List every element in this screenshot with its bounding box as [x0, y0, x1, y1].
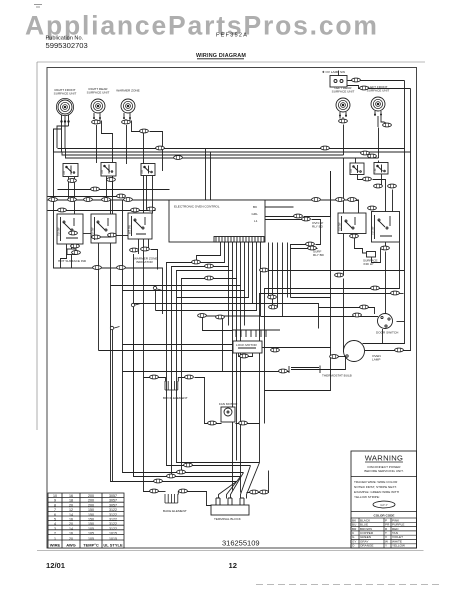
wire lock motor left	[123, 344, 234, 346]
svg-text:BAKE ELEMENT: BAKE ELEMENT	[163, 509, 187, 513]
connector J45	[308, 246, 317, 250]
svg-text:105: 105	[88, 537, 94, 541]
connector J72	[260, 490, 269, 494]
connector J62	[185, 375, 194, 379]
svg-text:IND LP: IND LP	[364, 262, 374, 266]
svg-text:200: 200	[88, 499, 94, 503]
wire latch drop	[239, 354, 253, 357]
svg-text:20: 20	[69, 522, 73, 526]
label surf rly bd	[313, 250, 325, 258]
svg-text:16: 16	[69, 518, 73, 522]
wire x330 long drop	[265, 171, 331, 391]
svg-text:150: 150	[88, 518, 94, 522]
wire broil relay down	[385, 252, 387, 315]
wire eoc drop 2	[172, 243, 229, 477]
wire mid bus row 4	[48, 210, 156, 212]
lf unit terminal dots	[374, 114, 382, 116]
wire lf switch out 2	[373, 180, 386, 213]
connector J60	[279, 369, 288, 373]
connector J54	[371, 286, 380, 290]
wire right vertical r3	[287, 243, 289, 298]
terminal block TB1	[211, 498, 249, 515]
warning box	[351, 451, 417, 548]
svg-text:2: 2	[54, 532, 56, 536]
oven lamp switch box S6	[330, 76, 347, 88]
surface switch right front S1	[63, 164, 78, 177]
wire bake left lead	[159, 491, 166, 493]
svg-text:150: 150	[88, 522, 94, 526]
wire mid bus row 2	[48, 196, 126, 198]
oven lamp DS3	[344, 341, 365, 362]
label broil element	[163, 396, 188, 400]
wire junction drop a	[155, 289, 157, 311]
bake element R2	[165, 494, 178, 503]
svg-text:LIM: LIM	[374, 169, 377, 173]
lf unit stubs	[375, 111, 389, 127]
left front switch S5	[374, 163, 388, 175]
wire top bus 4	[66, 149, 379, 159]
connector J63	[208, 421, 217, 425]
wire k1 to k2 link	[84, 233, 92, 235]
label thermostat bulb	[322, 374, 352, 378]
wire rly link 2	[312, 220, 321, 245]
wire lf box drop	[392, 190, 394, 213]
svg-text:DOOR SWITCH: DOOR SWITCH	[376, 331, 398, 335]
wire surf rly feed	[273, 243, 278, 308]
wire long drop to bake	[144, 132, 151, 492]
svg-text:BROIL ELEMENT: BROIL ELEMENT	[163, 396, 188, 400]
wire bottom of switches bus	[54, 130, 163, 315]
connector J52	[388, 184, 397, 188]
wire eoc right bk	[259, 206, 294, 208]
wire door switch right stub	[397, 321, 405, 323]
svg-text:200: 200	[88, 494, 94, 498]
connector J42	[294, 214, 303, 218]
wire mid bus row	[48, 200, 359, 214]
svg-text:RLY BD: RLY BD	[313, 253, 325, 257]
svg-text:LIM: LIM	[101, 170, 104, 174]
svg-text:16: 16	[69, 494, 73, 498]
connector J64	[239, 421, 248, 425]
wire k1 bottom leads	[71, 245, 73, 268]
svg-text:COLOR CODE: COLOR CODE	[374, 514, 395, 518]
connector J21	[131, 208, 140, 212]
hot surface indicator lamp DS1	[67, 249, 76, 255]
svg-text:14: 14	[69, 513, 73, 517]
wire x122 long drop	[123, 201, 244, 473]
wire top bus L1	[58, 148, 405, 150]
wire x98 drop	[98, 269, 100, 351]
wire eoc drop 6	[123, 243, 245, 291]
wire box a drop lower	[343, 279, 346, 352]
wire bake relay out	[355, 234, 368, 253]
wire rly drop 2	[291, 248, 318, 250]
wire eoc drop 5	[111, 243, 241, 286]
connector J53	[335, 273, 344, 277]
svg-text:✚ OV LAMP SW: ✚ OV LAMP SW	[322, 70, 345, 74]
wire warmer switch drop 2	[152, 176, 154, 214]
svg-text:3122: 3122	[109, 527, 117, 531]
connector J47	[348, 198, 357, 202]
wire rly drop	[291, 245, 309, 298]
connector J6	[352, 78, 361, 82]
svg-text:GRL: GRL	[252, 212, 259, 216]
label left rear surface unit	[332, 86, 355, 94]
wire right vertical r1	[277, 243, 279, 308]
EOC pin labels BK GRL L1	[252, 205, 259, 223]
connector J61	[150, 375, 159, 379]
wire lr unit drop	[343, 125, 345, 214]
label fan motor	[219, 402, 238, 406]
wire eoc drop 8	[134, 243, 253, 304]
bake relay box K4	[338, 213, 367, 234]
svg-text:6: 6	[54, 513, 56, 517]
wire right rear feed	[96, 125, 98, 163]
surface unit warmer zone U3	[121, 99, 135, 113]
color code table	[351, 518, 417, 548]
svg-text:LIM: LIM	[141, 170, 144, 174]
connector J32	[93, 266, 102, 270]
wire k1 lead 2	[61, 245, 67, 268]
wire bake right lead	[178, 492, 179, 495]
wire slant link a	[156, 289, 163, 291]
svg-text:EXAMPLE: GREEN WIRE WITH: EXAMPLE: GREEN WIRE WITH	[354, 490, 399, 494]
wire eoc drop 1	[167, 243, 251, 466]
svg-text:TRACER WIRE: WIRE COLOR: TRACER WIRE: WIRE COLOR	[354, 480, 398, 484]
connector J55	[391, 291, 400, 295]
svg-text:12: 12	[229, 561, 237, 570]
connector J36	[205, 276, 214, 280]
svg-text:LAMP: LAMP	[372, 358, 380, 362]
label bake element	[163, 509, 187, 513]
infinite switch box right rear K2	[91, 214, 117, 243]
connector J29	[108, 233, 117, 237]
oven lamp switch label	[322, 70, 345, 74]
wire mid band right 1	[291, 297, 331, 299]
connector J17	[117, 194, 126, 198]
connector J48	[350, 234, 359, 238]
EOC terminal strip P1	[214, 237, 264, 243]
connector J39	[269, 305, 278, 309]
svg-text:YELLOW: YELLOW	[392, 544, 405, 548]
label ovn lp rly bd	[312, 221, 324, 229]
svg-text:105: 105	[88, 527, 94, 531]
wire eoc drop 10	[203, 243, 261, 317]
wire lock motor right	[263, 347, 331, 349]
svg-text:12: 12	[69, 508, 73, 512]
wire bundle slant 2	[241, 466, 251, 499]
connector J22	[147, 207, 156, 211]
lr unit terminal dots	[339, 115, 347, 117]
junction node a	[153, 286, 156, 289]
svg-text:BEFORE SERVICING UNIT.: BEFORE SERVICING UNIT.	[364, 469, 403, 473]
connector J66	[177, 470, 186, 474]
svg-text:3122: 3122	[109, 508, 117, 512]
connector J27	[72, 251, 81, 255]
svg-text:3057: 3057	[109, 499, 117, 503]
svg-text:SU SW: SU SW	[371, 226, 375, 235]
wire eoc drop 3	[177, 243, 260, 463]
svg-text:3057: 3057	[109, 503, 117, 507]
svg-text:5995302703: 5995302703	[46, 41, 88, 50]
svg-text:LIM: LIM	[63, 171, 66, 175]
svg-text:YELLOW STRIPE:: YELLOW STRIPE:	[354, 495, 380, 499]
svg-text:150: 150	[88, 513, 94, 517]
wire eoc down v1	[228, 267, 230, 326]
svg-text:3122: 3122	[109, 522, 117, 526]
wire rf switch drop 2	[74, 177, 76, 215]
wire thermostat branch	[222, 318, 224, 372]
wire lr switch feed	[355, 158, 357, 164]
wire k2 to k3 link	[117, 235, 129, 237]
connector J43	[302, 217, 311, 221]
surface unit left rear U4	[336, 98, 350, 112]
label lock motor	[234, 342, 261, 347]
connector J44	[306, 242, 315, 246]
connector J35	[205, 264, 214, 268]
wire right loop feed	[400, 289, 404, 294]
wire eoc down v4	[240, 286, 242, 493]
svg-text:THERMOSTAT BULB: THERMOSTAT BULB	[322, 374, 352, 378]
svg-text:SURFACE UNIT: SURFACE UNIT	[87, 91, 110, 95]
svg-text:WARNING: WARNING	[365, 454, 404, 463]
wire x110 long drop	[111, 200, 237, 482]
connector J12b	[368, 206, 377, 210]
surface unit right front U1	[56, 98, 73, 115]
svg-text:16: 16	[69, 532, 73, 536]
connector J7	[360, 86, 369, 90]
label electronic oven control	[174, 205, 220, 209]
svg-text:GY-Y: GY-Y	[380, 503, 387, 507]
svg-text:1015: 1015	[109, 537, 117, 541]
svg-text:105: 105	[88, 532, 94, 536]
wire lamp left link	[331, 356, 345, 358]
warmer unit stubs	[124, 113, 130, 122]
latch switch assembly S8	[232, 330, 280, 337]
connector J68	[154, 479, 163, 483]
wire broil relay out	[385, 243, 387, 249]
wire slant link b	[134, 304, 141, 306]
label warmer zone	[116, 89, 139, 93]
svg-text:200: 200	[88, 503, 94, 507]
svg-text:FAN MOTOR: FAN MOTOR	[219, 402, 238, 406]
scan artifact bottom dashes	[256, 584, 440, 586]
connector J41	[216, 315, 225, 319]
connector J31	[141, 247, 150, 251]
label right rear surface unit	[87, 87, 110, 95]
svg-text:ORANGE: ORANGE	[360, 544, 373, 548]
label hot surface ind	[58, 259, 87, 263]
wire right loop 1	[265, 243, 400, 424]
wire x131 drop	[134, 254, 241, 477]
svg-text:316255109: 316255109	[222, 539, 260, 548]
wire eoc top feed 1	[205, 149, 207, 201]
wire thermostat right	[344, 357, 346, 371]
connector J59	[240, 354, 249, 358]
svg-text:INDICATOR: INDICATOR	[136, 260, 153, 264]
connector J58	[271, 348, 280, 352]
svg-text:TERMINAL BLOCK: TERMINAL BLOCK	[214, 517, 242, 521]
connector J15	[84, 198, 93, 202]
diagram border	[47, 68, 417, 549]
svg-text:TEMP°C: TEMP°C	[83, 543, 99, 548]
wire lf switch out	[381, 175, 383, 187]
connector J65	[184, 463, 193, 467]
svg-text:FEF352A: FEF352A	[216, 33, 248, 39]
svg-text:20: 20	[69, 503, 73, 507]
fan motor M1	[221, 407, 235, 422]
wire bundle slant 4	[227, 477, 241, 499]
lr unit stubs	[340, 112, 346, 119]
wire eoc right grl	[259, 214, 294, 217]
svg-text:SU SW: SU SW	[57, 227, 61, 236]
connector J38	[268, 295, 277, 299]
infinite switch box right front K1	[57, 214, 84, 244]
wire eoc drop 7	[177, 243, 249, 298]
label surface ind lp	[363, 259, 378, 267]
connector J51	[374, 184, 383, 188]
wire lr switch out	[358, 175, 363, 180]
wire right border drop 2	[365, 89, 411, 351]
connector J28	[92, 235, 101, 239]
oven thermostat S9	[289, 366, 345, 374]
wire eoc right l1	[259, 220, 302, 222]
svg-text:HOT SURFACE IND: HOT SURFACE IND	[58, 259, 87, 263]
rr unit terminal dots	[93, 117, 101, 119]
svg-text:4: 4	[54, 522, 56, 526]
junction node c	[110, 326, 113, 329]
connector J71	[250, 490, 259, 494]
svg-text:18: 18	[69, 499, 73, 503]
warmer unit terminal dots	[123, 117, 131, 119]
svg-text:7: 7	[54, 508, 56, 512]
wire warmer bus link	[150, 132, 163, 172]
junction node b	[131, 303, 134, 306]
wire bundle slant 3	[231, 473, 244, 499]
svg-text:NOTED FIRST, STRIPE NEXT.: NOTED FIRST, STRIPE NEXT.	[354, 485, 397, 489]
wire warmer right lead	[132, 121, 140, 132]
label door switch	[376, 331, 398, 335]
svg-text:3057: 3057	[109, 494, 117, 498]
connector J56	[353, 313, 362, 317]
connector J67	[167, 474, 176, 478]
connector J13	[49, 198, 58, 202]
wire fan right lead	[236, 423, 260, 425]
door switch S7	[378, 314, 393, 329]
wire latch comb left	[203, 316, 233, 331]
connector J12c	[312, 198, 321, 202]
connector J11	[361, 151, 370, 155]
wire lf unit drop	[378, 128, 380, 164]
wire right border drop 1	[363, 81, 405, 344]
wire row y267 right	[98, 244, 100, 269]
connector J8	[156, 146, 165, 150]
wire right rear L-drop	[102, 121, 113, 197]
electronic oven control box A1	[169, 200, 265, 242]
svg-text:1: 1	[54, 537, 56, 541]
rf unit terminal dots	[60, 120, 69, 122]
surface switch right rear S2	[101, 163, 116, 177]
wire eoc drop 4	[182, 243, 237, 473]
svg-text:SURFACE UNIT: SURFACE UNIT	[54, 92, 77, 96]
wire door sw to lamp	[382, 329, 384, 344]
svg-text:8: 8	[54, 503, 56, 507]
wire color table	[48, 493, 124, 548]
wire surf ind drop	[372, 249, 381, 263]
wire mid band right 2	[253, 304, 319, 329]
connector J20	[58, 208, 67, 212]
wire lamp sw right 1	[348, 80, 405, 82]
wire lamp sw top	[338, 71, 340, 77]
connector J40	[198, 314, 207, 318]
svg-text:WIRE: WIRE	[50, 543, 61, 548]
scan artifact top marks	[34, 5, 42, 8]
wire rly link 1	[304, 171, 331, 217]
wire door feed upper	[319, 308, 375, 315]
wire slant link c	[113, 327, 120, 329]
svg-text:SURFACE UNIT: SURFACE UNIT	[332, 90, 355, 94]
wire block right feed	[247, 471, 269, 493]
svg-text:3122: 3122	[109, 513, 117, 517]
wire eoc down v5	[244, 291, 246, 326]
rr unit stubs	[94, 113, 100, 124]
label terminal block	[214, 517, 242, 521]
wire bake to block	[188, 492, 212, 506]
connector J9	[174, 156, 183, 160]
wire junction drop b	[133, 306, 135, 477]
wire eoc drop 11	[197, 243, 221, 263]
wire top bus N	[62, 152, 344, 155]
connector J12	[368, 154, 377, 158]
svg-text:5: 5	[54, 518, 56, 522]
connector J19	[91, 187, 100, 191]
lock motor box B1	[233, 341, 262, 353]
wire eoc down v3	[236, 279, 238, 461]
svg-text:L1: L1	[254, 219, 258, 223]
connector J57c	[330, 355, 339, 359]
svg-text:SU SW: SU SW	[338, 222, 342, 231]
connector J33	[117, 266, 126, 270]
wire junction drop c	[112, 329, 114, 482]
svg-text:Y: Y	[385, 544, 387, 548]
svg-text:UL STYLE: UL STYLE	[103, 543, 123, 548]
connector J5	[383, 123, 392, 127]
connector J69	[150, 489, 159, 493]
surface unit right rear U2	[91, 99, 105, 113]
wire lock motor left 2	[99, 350, 234, 352]
svg-text:12/01: 12/01	[46, 561, 66, 570]
connector J23	[68, 179, 77, 183]
connector J25	[69, 231, 78, 235]
connector J16	[102, 198, 111, 202]
broil relay box K5	[371, 212, 400, 243]
svg-text:RLY BD: RLY BD	[312, 225, 324, 229]
surface unit left front U5	[371, 97, 385, 111]
label warmer zone indicator	[134, 257, 157, 265]
label right front surface unit	[54, 88, 77, 96]
svg-text:WARMER ZONE: WARMER ZONE	[116, 89, 139, 93]
wire broil left lead	[144, 378, 166, 382]
broil element R1	[165, 381, 178, 390]
wire rf switch drop 1	[68, 177, 70, 200]
wire k3 bottom leads	[139, 240, 149, 255]
wire bundle slant 1	[247, 463, 260, 499]
wire right vertical r2	[282, 243, 284, 317]
svg-text:SURFACE UNIT: SURFACE UNIT	[367, 89, 390, 93]
connector J49	[381, 246, 390, 250]
wire lamp sw right 2	[348, 86, 411, 89]
connector J4	[339, 119, 348, 123]
